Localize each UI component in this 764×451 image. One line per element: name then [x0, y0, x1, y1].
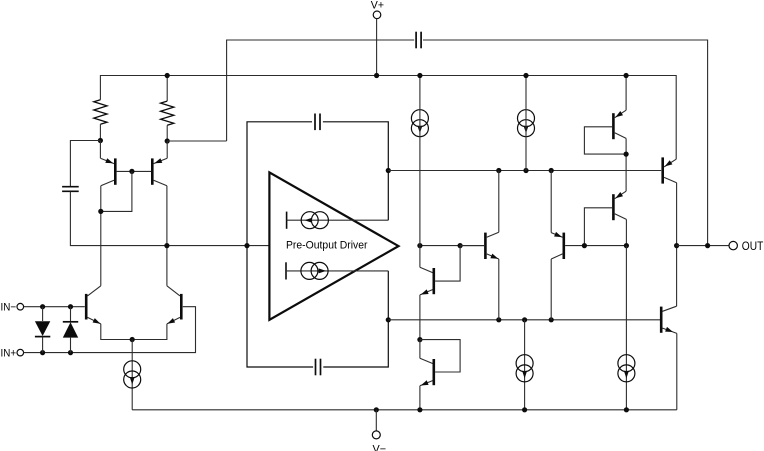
op-amp triangle U1 Pre-Output Driver [269, 172, 398, 319]
junction Q5 collector / row2 [496, 168, 501, 173]
svg-text:OUT: OUT [742, 241, 764, 253]
wire IN+ to Qin2 base [24, 307, 196, 353]
junction V+ rail / terminal [374, 73, 379, 78]
terminal OUT [729, 241, 737, 249]
wire base tie to Q1 collector [101, 171, 132, 211]
junction V- terminal [374, 407, 379, 412]
wire driver output node to Q5 base [420, 245, 484, 247]
junction D2 anode [68, 350, 73, 355]
transistor Q9 (diode-connected PNP) [625, 76, 627, 111]
current source I5 [518, 110, 535, 127]
junction Q9 emitter / V+ rail [624, 73, 629, 78]
transistor Q2 [166, 141, 168, 158]
junction box right / row3 [386, 317, 391, 322]
wire IN- to Qin1 base [24, 306, 85, 308]
terminal IN+ [17, 349, 24, 356]
junction I7 / rail [624, 407, 629, 412]
wire R2 bottom [166, 125, 168, 141]
junction I6 / row3 [522, 317, 527, 322]
wire capacitor C1 right to OUT node [423, 40, 708, 246]
junction tail node [130, 337, 135, 342]
transistor Q7 (diode-connected) [419, 246, 421, 268]
transistor Q3 (input NPN, inverting) [85, 294, 88, 320]
current source I1 [124, 361, 141, 378]
resistor R2 [161, 101, 174, 125]
capacitor C4 (box bottom) [315, 359, 317, 376]
transistor Q1 [99, 141, 101, 159]
terminal V- [372, 431, 380, 439]
wire to OUT terminal [677, 245, 729, 247]
terminal IN- [17, 303, 24, 310]
wire I6 column [524, 320, 526, 410]
junction Q1 collector [98, 209, 103, 214]
current source I2 (upper internal) [286, 212, 288, 229]
junction Q5 emitter / row3 [496, 317, 501, 322]
current source I7 [618, 355, 635, 372]
junction Q10 collector / I7 [624, 243, 629, 248]
junction Q6 emitter / row2 [549, 168, 554, 173]
current source I4 [411, 110, 428, 127]
wire R1 bottom [99, 124, 101, 140]
current source I3 (lower internal) [285, 262, 287, 279]
junction Q2 collector / driver input [164, 243, 169, 248]
wire R2 node to C1 drop [167, 140, 226, 142]
terminal V+ [373, 11, 381, 19]
current source I6 [516, 355, 533, 372]
wire R1 node to capacitor C2 [70, 141, 100, 187]
junction I4 / driver output [417, 243, 422, 248]
junction D1 cathode [40, 350, 45, 355]
pre-output driver box [247, 122, 313, 367]
junction Q6 collector / row3 [549, 317, 554, 322]
resistor R1 [94, 100, 107, 124]
wire V+ terminal to rail [376, 19, 378, 76]
svg-text:Pre-Output Driver: Pre-Output Driver [286, 240, 368, 252]
junction I5 / row2 [523, 168, 528, 173]
node R2 bottom [165, 138, 170, 143]
svg-text:IN+: IN+ [1, 348, 17, 360]
wire row2 (upper bias) [388, 170, 661, 172]
svg-text:IN−: IN− [1, 302, 17, 314]
node R1 bottom [98, 138, 103, 143]
transistor Q10 (diode-connected PNP) [615, 191, 626, 199]
junction output node [674, 243, 679, 248]
junction I5 / V+ rail [523, 73, 528, 78]
capacitor C2 [62, 186, 79, 188]
junction Q8 node [417, 337, 422, 342]
wire V+ rail [100, 76, 676, 160]
junction I4 / V+ rail [417, 73, 422, 78]
junction Q6 base [582, 243, 587, 248]
junction box right / row2 [386, 168, 391, 173]
junction D1 anode [40, 304, 45, 309]
wire V- rail [132, 409, 677, 411]
junction Q9 collector [624, 152, 629, 157]
transistor Q12 (lower output NPN) [660, 307, 663, 333]
wire I7 column [625, 246, 627, 410]
junction R2 / V+ rail [165, 73, 170, 78]
wire Q1-Q2 bases [117, 170, 151, 172]
wire row3 (lower bias) [388, 319, 660, 321]
diode D2 [70, 307, 72, 322]
svg-text:V−: V− [373, 443, 387, 451]
transistor Q11 (upper output PNP) [664, 159, 676, 167]
junction box left edge / driver input [244, 243, 249, 248]
junction Q7 base loop [458, 243, 463, 248]
capacitor C3 (box top) [314, 114, 316, 131]
transistor Q4 (input NPN, non-inverting) [180, 294, 183, 320]
junction I6 / rail [522, 407, 527, 412]
capacitor C1 [415, 32, 417, 49]
wire C2 to driver input node [70, 192, 269, 246]
svg-text:V+: V+ [371, 0, 384, 11]
junction bases [129, 169, 134, 174]
wire to V- terminal [375, 410, 377, 431]
diode D1 [42, 307, 44, 321]
transistor Q6 [550, 171, 552, 233]
junction C1 / output [705, 243, 710, 248]
junction D2 cathode [68, 304, 73, 309]
wire emitters to tail node [101, 324, 167, 340]
junction Q8 emitter / rail [417, 407, 422, 412]
wire to capacitor C1 left [227, 40, 415, 141]
wire R2 top [166, 76, 168, 102]
wire tail node to V- rail [131, 340, 133, 410]
transistor Q5 [460, 245, 484, 247]
